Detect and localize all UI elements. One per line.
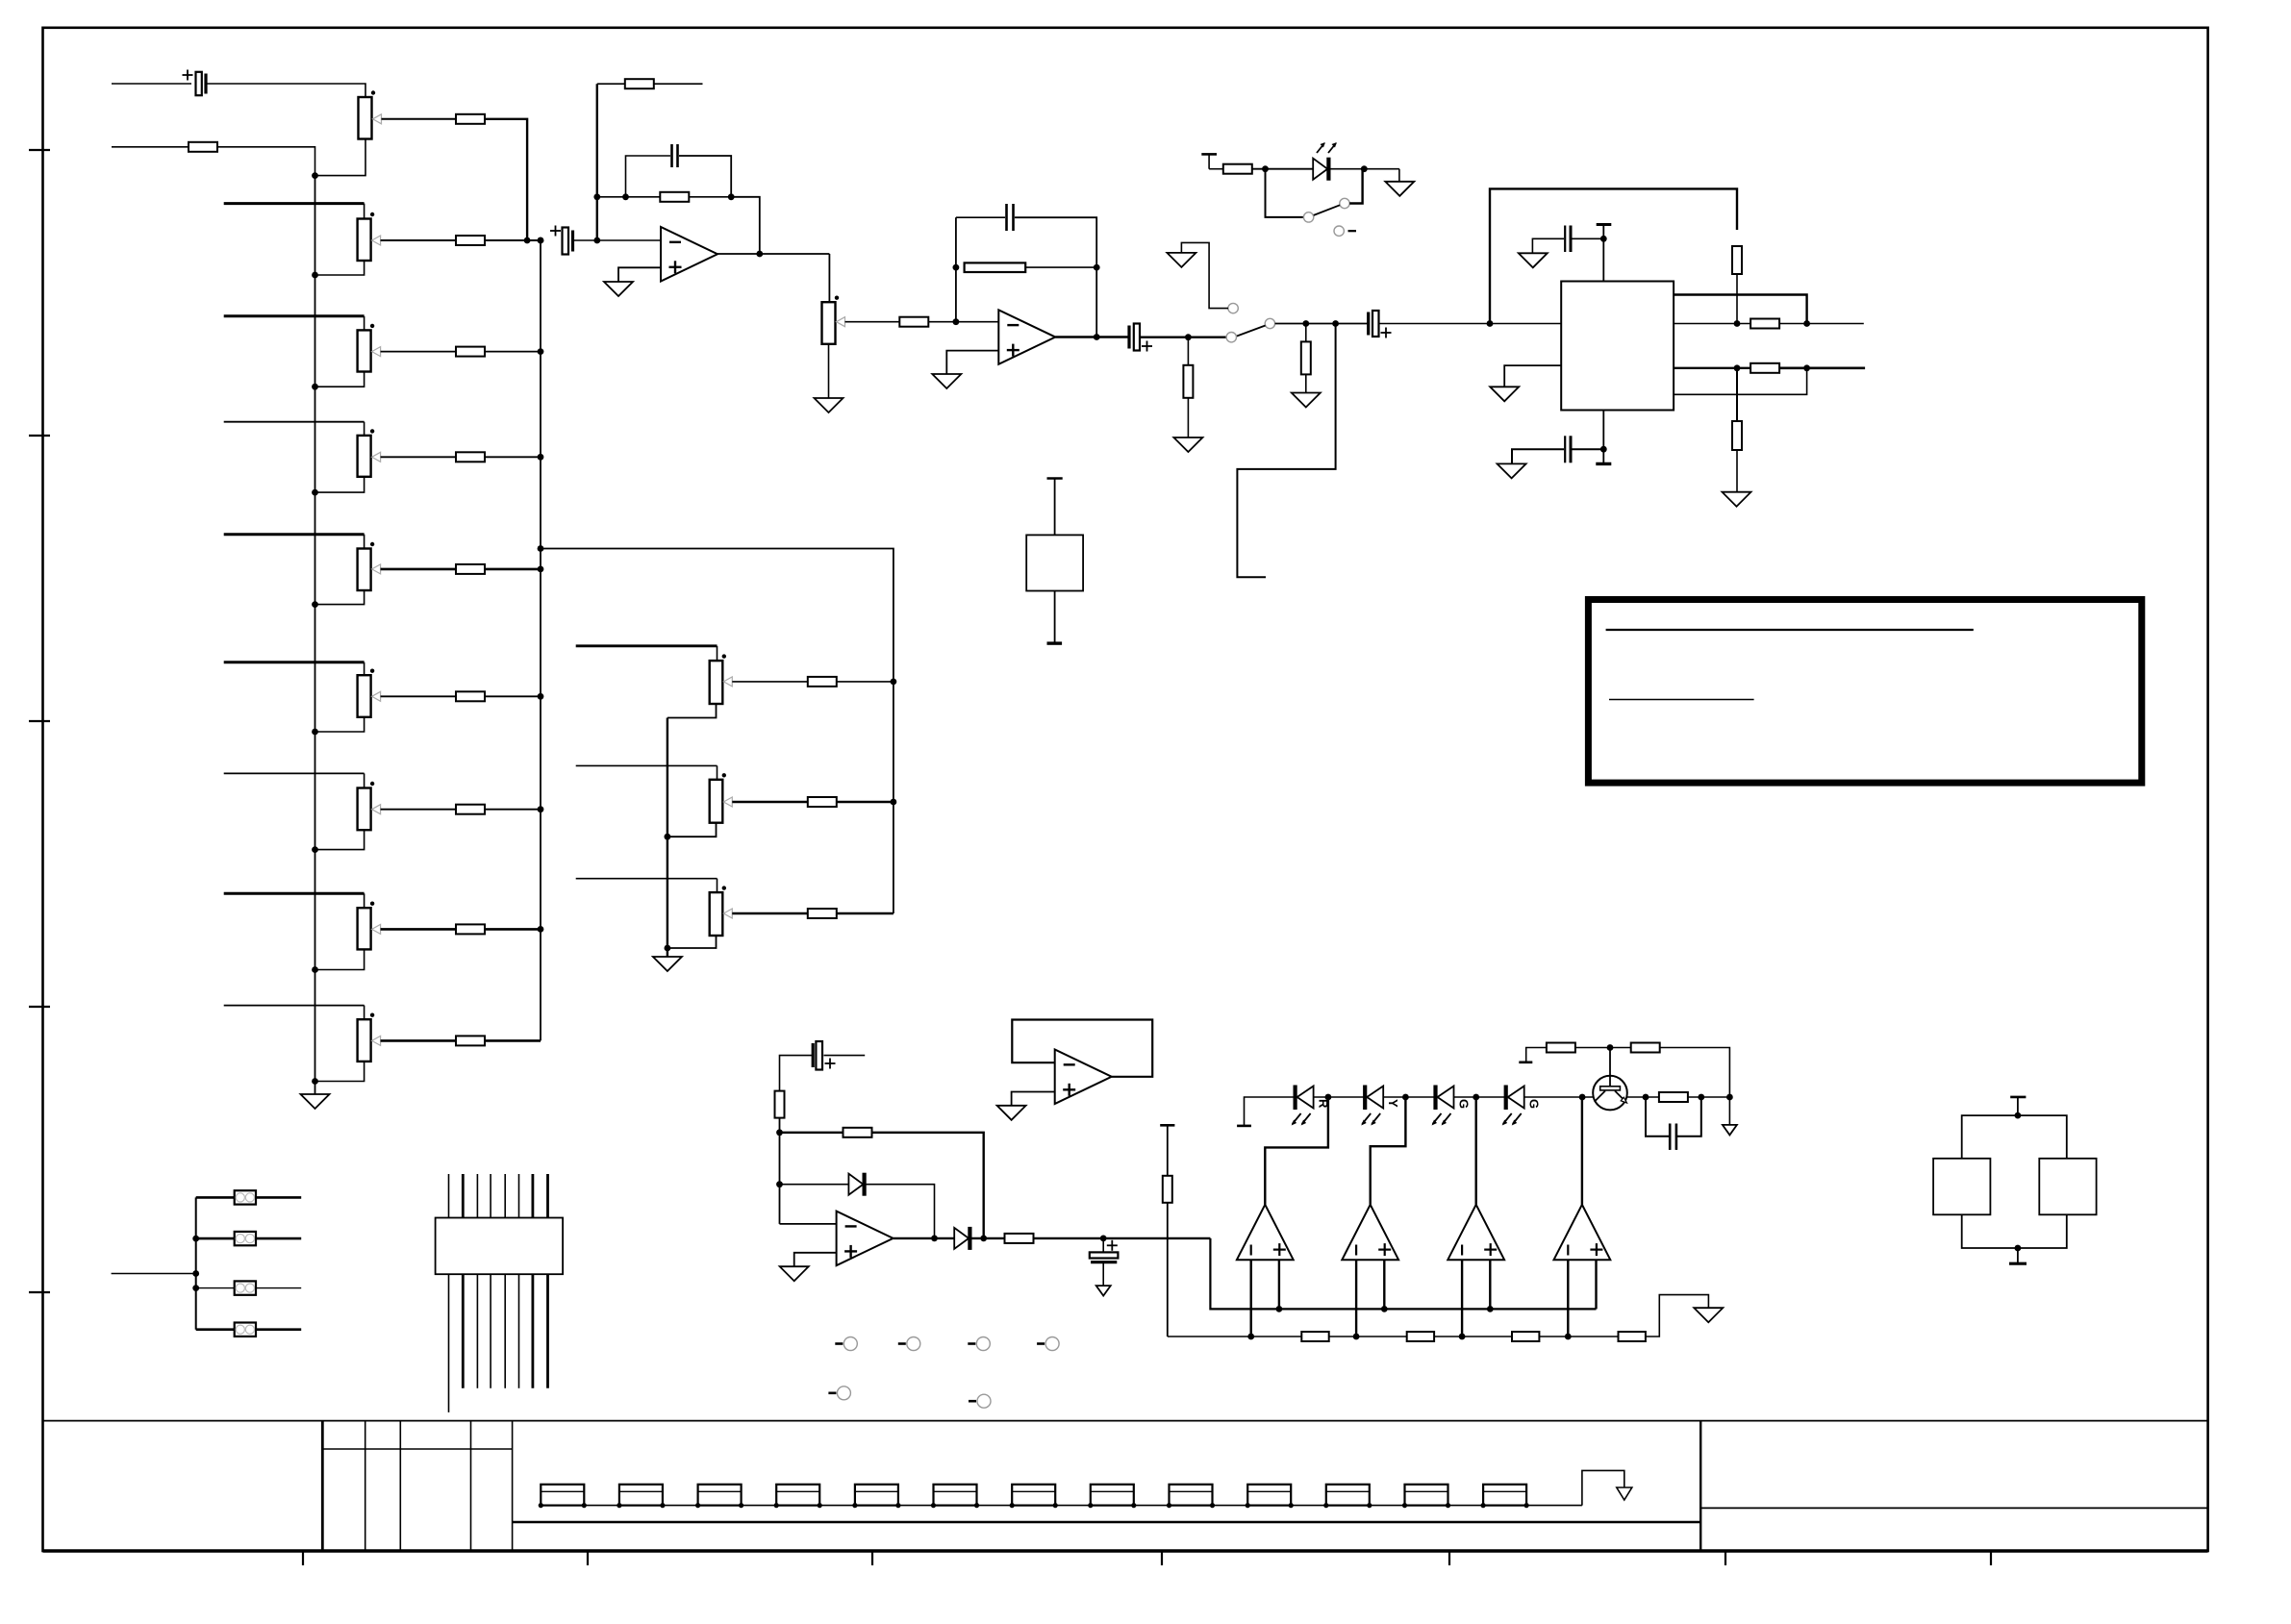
node: [728, 193, 735, 200]
wire to comparator bus: [1210, 1238, 1596, 1310]
wire fb left: [597, 196, 661, 198]
comparator - pin: [1461, 1260, 1463, 1337]
resistor R21 (feedback): [843, 1128, 872, 1137]
node: [312, 172, 318, 179]
op-amp U4: [837, 1212, 894, 1266]
wire switch bus to arrow terminator: [1582, 1470, 1624, 1505]
wire wiper P6: [381, 695, 456, 697]
key switch S10: [1247, 1485, 1291, 1506]
node: [312, 966, 318, 973]
title middle line: [513, 1521, 1701, 1523]
resistor R15: [1223, 164, 1252, 174]
wire U5 feedback loop: [1012, 1020, 1152, 1077]
comparator - pin: [1567, 1260, 1569, 1337]
wire bottom: [667, 936, 717, 948]
node: [1381, 1306, 1388, 1312]
capacitor C10: [1102, 1238, 1104, 1253]
wire P8 bottom: [315, 949, 365, 969]
op-amp U1: [661, 227, 718, 282]
fader P5: [358, 549, 371, 591]
capacitor C11 loop: [1646, 1097, 1669, 1137]
node: [593, 237, 600, 244]
wire to send bus: [837, 801, 894, 804]
node: [1100, 1236, 1107, 1242]
wire P10 bottom: [828, 344, 830, 398]
wire divider down: [1167, 1203, 1169, 1337]
key switch S9: [1170, 1485, 1213, 1506]
resistor R18: [1750, 363, 1779, 373]
DIN pin: [546, 1174, 549, 1218]
capacitor C6: [1367, 312, 1370, 336]
ground: [301, 1094, 330, 1109]
LED D5 (Y): [1363, 1086, 1367, 1111]
comparator - pin: [1249, 1260, 1251, 1337]
fader P4: [358, 436, 371, 477]
node: [312, 384, 318, 390]
wire wiper P2: [381, 239, 456, 241]
ground: [1723, 492, 1751, 507]
key switch bus: [541, 1505, 1582, 1507]
wire input ch9: [224, 1005, 365, 1007]
node: [665, 834, 671, 840]
wire P5 bottom: [315, 590, 365, 605]
node: [1734, 320, 1741, 327]
Q1 collector: [1609, 1048, 1611, 1087]
op-amp U2: [998, 310, 1055, 364]
resistor R11: [899, 317, 928, 327]
wire input ch1: [112, 83, 191, 85]
resistor R3: [456, 347, 485, 357]
node: [1302, 320, 1309, 327]
test point: [1037, 1342, 1045, 1345]
capacitor C3 (feedback): [670, 144, 673, 167]
wire fb elbow: [731, 197, 760, 254]
resistor R2: [456, 236, 485, 245]
wire wiper P4: [381, 456, 456, 458]
wire LED out: [1329, 168, 1399, 170]
wire meter line: [1033, 1237, 1210, 1239]
svg-text:R: R: [1317, 1099, 1331, 1109]
key switch S5: [855, 1485, 898, 1506]
wire send input B: [576, 764, 718, 766]
capacitor C5: [1127, 326, 1130, 349]
wire C5 to switch: [1141, 337, 1227, 338]
resistor R2in: [189, 142, 217, 152]
resistor RA: [808, 677, 837, 687]
node: [1734, 364, 1741, 371]
comparator + pin: [1595, 1260, 1597, 1309]
wire R8 to mix bus: [485, 928, 541, 931]
wire wiper P10: [845, 321, 900, 323]
resistor R22: [1005, 1234, 1034, 1243]
pad bus: [195, 1197, 197, 1329]
node: [665, 945, 671, 952]
resistor R8: [456, 924, 485, 934]
LED D6 (G): [1433, 1086, 1437, 1111]
LED D1: [1313, 159, 1327, 180]
fold ticks bottom: [302, 1551, 304, 1565]
wire D2 elbow: [865, 1185, 935, 1238]
node: [593, 193, 600, 200]
wire R11 to U2: [928, 321, 998, 323]
node: [1459, 1334, 1466, 1340]
switch SW2: [1266, 169, 1304, 217]
wire fb cap right: [679, 156, 731, 197]
wires bottom rail: [1962, 1214, 2067, 1248]
LED chain supply tick: [1245, 1097, 1294, 1126]
node: [312, 489, 318, 496]
block X2: [1933, 1159, 1990, 1215]
resistor R5: [456, 564, 485, 574]
diode D2: [848, 1174, 863, 1195]
ground: [1498, 463, 1526, 478]
wire input ch6: [224, 661, 365, 663]
ground: [1490, 387, 1519, 401]
resistor R24: [1301, 1332, 1328, 1341]
node: [538, 926, 544, 933]
wire P1 bottom: [315, 139, 366, 176]
wire wiper P3: [381, 351, 456, 353]
wire wiper P8: [381, 928, 456, 931]
U3 V+ pin: [1602, 225, 1604, 282]
resistor R10 (feedback): [660, 192, 689, 202]
wire R6 to mix bus: [485, 695, 541, 697]
diode D3: [954, 1228, 969, 1249]
wire wiper P7: [381, 809, 456, 811]
node: [931, 1236, 938, 1242]
wire to D2: [780, 1184, 849, 1186]
wire input ch7: [224, 772, 365, 774]
resistor R1: [456, 114, 485, 124]
wire R2in to bus: [217, 147, 315, 176]
node: [891, 679, 897, 686]
node: [312, 272, 318, 279]
node: [1726, 1094, 1733, 1101]
wire wiper P1: [382, 118, 457, 120]
comparator + pin: [1489, 1260, 1491, 1309]
node: [1094, 264, 1100, 271]
wire out R: [1779, 366, 1865, 369]
ground: [780, 1266, 809, 1281]
fader P9: [358, 1019, 371, 1062]
wire input ch5: [224, 533, 365, 536]
block X1: [1026, 535, 1083, 590]
divider bus: [1168, 1336, 1302, 1337]
key switch S6: [934, 1485, 977, 1506]
wire R20 down: [779, 1118, 781, 1224]
wire P6 bottom: [315, 717, 365, 732]
node: [312, 601, 318, 608]
bias supply tick: [1526, 1048, 1547, 1062]
wire R3 to mix bus: [485, 351, 541, 353]
node: [192, 1270, 199, 1277]
fader P8: [358, 908, 371, 949]
node: [1487, 1306, 1494, 1312]
resistor R16: [1732, 246, 1742, 274]
feedback bus U1: [596, 84, 598, 240]
wire C9 left: [780, 1056, 813, 1091]
DIN pin: [448, 1174, 450, 1218]
node: [538, 693, 544, 700]
node: [312, 846, 318, 853]
key switch S2: [619, 1485, 663, 1506]
DIN pin: [476, 1274, 478, 1388]
node: [1276, 1306, 1283, 1312]
wire R29 down: [1660, 1048, 1730, 1098]
U3 left pin to ground: [1504, 365, 1561, 387]
test point: [969, 1400, 976, 1403]
DIN pin: [518, 1274, 520, 1388]
wire R15 to LED: [1252, 168, 1314, 170]
node: [1262, 165, 1269, 172]
DIN pin: [518, 1174, 520, 1218]
DIN connector J5: [436, 1218, 563, 1275]
svg-text:G: G: [1527, 1099, 1542, 1109]
fader P2: [358, 219, 371, 262]
transistor Q1: [1593, 1076, 1627, 1111]
resistor R28: [1547, 1043, 1575, 1053]
DIN pin: [448, 1274, 450, 1412]
node: [538, 566, 544, 573]
node: [1607, 1044, 1614, 1051]
DIN pin: [490, 1274, 491, 1388]
ground: [997, 1106, 1026, 1120]
notes box: [1588, 600, 2141, 784]
open contact: [1334, 226, 1344, 236]
LED D1 arrows: [1317, 143, 1324, 153]
wire divider end: [1646, 1295, 1709, 1337]
comparator U6c: [1448, 1205, 1504, 1260]
node: [312, 729, 318, 736]
key switch S3: [698, 1485, 742, 1506]
resistor R19 to ground: [1736, 368, 1738, 421]
resistor R9: [456, 1036, 485, 1045]
capacitor C7: [1564, 226, 1566, 253]
node: [538, 806, 544, 812]
test point: [835, 1342, 843, 1345]
node: [2015, 1245, 2022, 1252]
notes underline 1: [1606, 629, 1974, 631]
wire to ground: [1398, 169, 1400, 182]
resistor R27: [1619, 1332, 1646, 1341]
wire echo loop: [1490, 188, 1737, 323]
comparator3 output: [1474, 1097, 1476, 1205]
resistor R7: [456, 805, 485, 814]
wire to send bus: [837, 681, 894, 683]
resistor R20: [775, 1091, 785, 1118]
wire fb down: [1095, 267, 1097, 337]
wire U2 output: [1055, 336, 1129, 337]
node: [1353, 1334, 1360, 1340]
mix bus: [540, 240, 541, 1040]
wire input ch3: [224, 314, 365, 317]
IC U3 (echo/BBD): [1561, 282, 1674, 411]
wire R7 to mix bus: [485, 809, 541, 811]
wire R5 to mix bus: [485, 568, 541, 571]
wire wiper P5: [381, 568, 456, 571]
send ground bus: [667, 718, 668, 958]
block X3: [2039, 1159, 2096, 1215]
fold ticks left: [29, 149, 50, 151]
node: [1473, 1094, 1479, 1101]
resistor RC: [808, 909, 837, 918]
resistor R23: [1163, 1176, 1172, 1203]
ground: [1519, 253, 1548, 267]
comparator4 output: [1581, 1097, 1583, 1205]
ground: [815, 398, 843, 412]
capacitor C9: [812, 1043, 815, 1067]
comparator + pin: [1278, 1260, 1280, 1309]
wire to master fader: [828, 254, 830, 302]
fader P1: [359, 97, 372, 139]
resistor R13 to ground: [1187, 337, 1189, 365]
wire P3 bottom: [315, 372, 365, 387]
wire to R15: [1209, 168, 1223, 170]
ground: [1173, 437, 1202, 452]
comparator + pin: [1383, 1260, 1385, 1309]
node: [1600, 236, 1607, 242]
node: [1185, 334, 1192, 340]
node: [192, 1285, 199, 1291]
node: [538, 348, 544, 355]
master fader P10: [822, 302, 836, 344]
node: [1361, 165, 1368, 172]
node: [312, 1078, 318, 1085]
wire wiper: [732, 681, 807, 683]
op-amp U5: [1055, 1050, 1112, 1105]
wire input ch2: [224, 202, 365, 205]
connector pad J2: [196, 1237, 235, 1240]
wire SW1 ground throw: [1181, 242, 1228, 308]
test point: [968, 1342, 975, 1345]
connector pad J4: [196, 1328, 235, 1331]
svg-text:G: G: [1457, 1099, 1472, 1109]
comparator U6d: [1554, 1205, 1611, 1260]
node: [1579, 1094, 1586, 1101]
wire R2 to mix bus: [485, 239, 541, 241]
wire U5 + input: [1012, 1092, 1055, 1106]
wire C1 to fader: [208, 84, 366, 97]
ground: [932, 374, 961, 388]
wire R12 to node: [1025, 266, 1096, 268]
wire input ch2: [112, 146, 189, 148]
node: [1698, 1094, 1704, 1101]
key switch S8: [1091, 1485, 1134, 1506]
resistor Rtop: [625, 79, 654, 88]
node: [1803, 320, 1810, 327]
node: [1402, 1094, 1409, 1101]
send fader PA: [710, 661, 723, 704]
resistor RB: [808, 797, 837, 807]
wire R4 to mix bus: [485, 456, 541, 458]
key switch S7: [1012, 1485, 1055, 1506]
wire fb cap left: [626, 156, 671, 197]
wire: [1575, 1047, 1631, 1049]
wire U3 out4: [1674, 368, 1807, 395]
node: [953, 318, 960, 325]
wire U1 output: [718, 253, 829, 255]
fader P6: [358, 675, 371, 717]
fader P7: [358, 788, 371, 831]
wire bottom: [667, 823, 717, 837]
wire U2 cap right: [1015, 217, 1096, 267]
node: [953, 264, 960, 271]
wire to resistor Rtop: [597, 83, 625, 85]
node: [538, 237, 544, 244]
send fader PC: [710, 892, 723, 936]
wire R16 down: [1736, 274, 1738, 324]
DIN pin: [490, 1174, 491, 1218]
wire to ground arrow: [1728, 1097, 1730, 1125]
wire send tap: [538, 545, 544, 552]
wire wiper: [732, 801, 807, 804]
capacitor C8: [1564, 436, 1566, 462]
test point: [828, 1392, 836, 1395]
resistor R25: [1407, 1332, 1434, 1341]
resistor R30: [1659, 1092, 1688, 1102]
node: [538, 454, 544, 461]
resistor R17: [1750, 319, 1779, 329]
ground: [1292, 393, 1321, 408]
svg-text:Y: Y: [1386, 1099, 1400, 1108]
ground: [1385, 182, 1414, 196]
node: [1325, 1094, 1332, 1101]
ground arrow: [1723, 1125, 1737, 1136]
wire input ch8: [224, 892, 365, 895]
wire U3 out1: [1674, 295, 1807, 324]
ground: [1694, 1308, 1723, 1322]
minus label: [1348, 230, 1357, 232]
wire U4 - input: [780, 1223, 837, 1225]
ground arrow: [1096, 1286, 1111, 1296]
input wire: [112, 1273, 196, 1275]
node: [2015, 1112, 2022, 1119]
key switch S13: [1483, 1485, 1526, 1506]
ground: [653, 957, 682, 971]
wire U2 cap left: [956, 216, 1005, 218]
wire out L: [1779, 323, 1864, 325]
ground: [604, 282, 633, 296]
title block top line: [43, 1420, 2208, 1422]
wires top rail: [1962, 1115, 2067, 1159]
DIN pin: [504, 1174, 506, 1218]
wire input ch4: [224, 421, 365, 423]
notes underline 2: [1609, 699, 1754, 701]
comparator - pin: [1355, 1260, 1357, 1337]
resistor R6: [456, 691, 485, 701]
DIN pin: [532, 1174, 535, 1218]
node: [1094, 334, 1100, 340]
comparator2 output: [1371, 1097, 1406, 1205]
node: [1565, 1334, 1572, 1340]
wire U4 + input: [794, 1253, 837, 1266]
wire C6 to IC: [1380, 323, 1562, 325]
capacitor C1: [204, 74, 207, 94]
switch SW1: [1226, 333, 1236, 342]
node: [756, 251, 763, 258]
DIN pin: [504, 1274, 506, 1388]
wire P7 bottom: [315, 830, 365, 849]
wire U3 out3: [1674, 367, 1750, 369]
ground bus (left): [315, 176, 316, 1094]
node: [1643, 1094, 1649, 1101]
key switch S11: [1326, 1485, 1370, 1506]
resistor R14 to ground: [1305, 324, 1307, 342]
comparator U6a: [1237, 1205, 1294, 1260]
wire C9 right stub: [824, 1055, 866, 1057]
wire U2 + input: [946, 351, 998, 374]
capacitor C2: [563, 228, 569, 255]
